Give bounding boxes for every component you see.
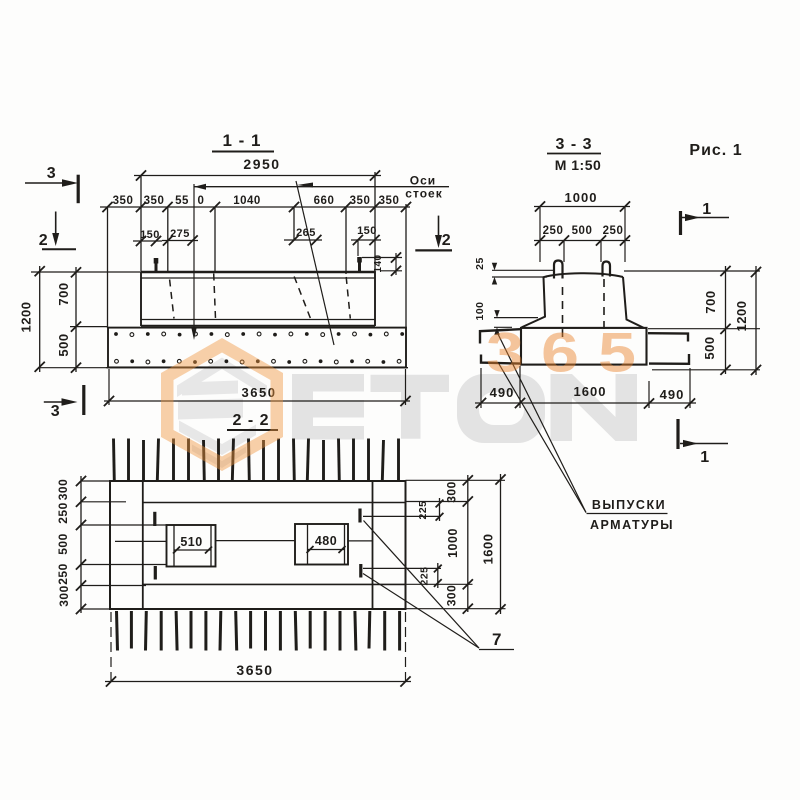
svg-text:350: 350 [113, 195, 134, 207]
right dims extension lines (plan) [406, 479, 506, 481]
post axis right (slanted) [296, 181, 334, 345]
svg-text:АРМАТУРЫ: АРМАТУРЫ [590, 518, 674, 532]
svg-text:3 - 3: 3 - 3 [555, 136, 592, 153]
footing outline (3-3) [521, 328, 647, 365]
svg-text:1: 1 [702, 201, 711, 218]
svg-text:ВЫПУСКИ: ВЫПУСКИ [592, 498, 666, 512]
rebar outlet P-shape right (3-3) [603, 262, 611, 277]
svg-text:2 - 2: 2 - 2 [232, 412, 269, 429]
svg-text:Рис. 1: Рис. 1 [689, 142, 742, 159]
footing outline section 1-1 [108, 328, 406, 368]
svg-text:1600: 1600 [481, 534, 496, 565]
svg-text:Оси: Оси [410, 174, 436, 188]
svg-text:1: 1 [700, 449, 709, 466]
left dim column 300/250/500/250/300 [80, 476, 82, 613]
right dims 3-3: extension lines [624, 270, 760, 272]
svg-text:265: 265 [296, 227, 316, 239]
top rebar spikes (plan) [112, 439, 116, 482]
svg-text:250: 250 [56, 502, 70, 524]
hidden post edges (dashed) left post [170, 280, 174, 319]
svg-text:2: 2 [442, 232, 451, 249]
dim 1200 line [39, 266, 41, 372]
rebar dowel right (section 1-1) [358, 257, 361, 272]
svg-text:300: 300 [56, 479, 70, 501]
post pocket 510 (plan) [167, 525, 216, 567]
section marker 2 left [55, 212, 57, 239]
svg-text:300: 300 [57, 585, 71, 607]
svg-text:300: 300 [445, 585, 459, 607]
svg-text:2950: 2950 [243, 156, 280, 172]
svg-text:100: 100 [474, 301, 486, 320]
post pocket 480 (plan) [295, 524, 348, 565]
pedestal outline (3-3) [543, 273, 623, 277]
watermark letters ETON [292, 374, 637, 443]
svg-text:3: 3 [486, 321, 524, 384]
hidden post edges (dashed) right post [294, 277, 310, 319]
dim 225 upper (plan) [439, 498, 441, 521]
plan outer rectangle [110, 481, 406, 609]
svg-text:250: 250 [543, 225, 564, 237]
svg-text:350: 350 [144, 195, 165, 207]
dim 225 lower (plan) [437, 563, 439, 588]
dim 140 (vertical, right of beam) [362, 257, 402, 259]
section marker 1 top right [679, 211, 682, 235]
svg-text:480: 480 [315, 534, 337, 548]
footing dots row 2 [115, 359, 119, 363]
extension verticals (3-3 top dims) [539, 207, 541, 262]
rebar dowel left (section 1-1) [155, 258, 158, 272]
svg-text:3650: 3650 [236, 662, 273, 678]
svg-text:6: 6 [541, 321, 579, 384]
dim 3650 (plan bottom) [110, 612, 112, 685]
svg-text:7: 7 [492, 630, 502, 649]
section marker 1 bottom right [676, 419, 679, 449]
dim 700/500 (3-3) [725, 266, 727, 374]
plan inner verticals (beam sides) [142, 481, 144, 609]
side wing element left (3-3) [480, 329, 520, 343]
svg-text:250: 250 [56, 563, 70, 585]
svg-text:350: 350 [379, 195, 400, 207]
plan beam edges [143, 502, 406, 504]
side wing element right (3-3) [648, 333, 688, 341]
osi stoek dimension line [194, 186, 449, 188]
extension verticals from dim rows [107, 207, 109, 328]
svg-text:500: 500 [56, 333, 71, 356]
dim 100 (3-3) [494, 317, 538, 319]
svg-text:510: 510 [180, 535, 202, 549]
svg-text:стоек: стоек [405, 187, 442, 201]
svg-text:3: 3 [51, 403, 60, 420]
svg-text:700: 700 [703, 290, 718, 313]
rebar outlet marks (plan) [153, 512, 156, 526]
svg-text:1000: 1000 [565, 190, 598, 205]
svg-text:490: 490 [490, 385, 515, 400]
dim 1600 (plan) [500, 474, 502, 614]
svg-text:3: 3 [47, 165, 56, 182]
dim 300/1000/300 (plan) [467, 475, 469, 612]
svg-text:490: 490 [660, 387, 685, 402]
svg-text:1200: 1200 [734, 301, 749, 332]
svg-text:660: 660 [314, 195, 335, 207]
svg-text:1 - 1: 1 - 1 [222, 131, 261, 150]
svg-text:55: 55 [175, 195, 189, 207]
rebar outlet P-shape left (3-3) [554, 261, 563, 279]
bottom rebar spikes (plan) [117, 611, 118, 651]
bottom dims 3-3: extension verticals [480, 368, 482, 408]
svg-text:1000: 1000 [446, 528, 460, 558]
footing dots row 1 [114, 332, 118, 336]
leader lines to mark 7 [364, 521, 480, 649]
dim 490/1600/490 (3-3) [475, 402, 696, 404]
svg-text:500: 500 [56, 533, 70, 555]
dim 25 (3-3) [492, 269, 554, 271]
svg-text:300: 300 [445, 481, 459, 503]
svg-text:М 1:50: М 1:50 [555, 157, 602, 173]
svg-text:500: 500 [572, 225, 593, 237]
svg-text:350: 350 [350, 195, 371, 207]
svg-text:150: 150 [357, 225, 377, 237]
dim 1200 (3-3) [755, 266, 757, 375]
svg-text:275: 275 [170, 228, 190, 240]
svg-text:1040: 1040 [233, 195, 261, 207]
leader lines vypuski armatury [496, 330, 586, 513]
svg-text:1200: 1200 [19, 302, 34, 333]
post axis left (vertical) [193, 184, 195, 332]
watermark orange hexagon ring [161, 338, 283, 471]
svg-text:1600: 1600 [574, 384, 607, 399]
svg-text:25: 25 [474, 257, 486, 270]
svg-text:5: 5 [598, 321, 636, 384]
dim row 350/350/550/1040/660/350/350 line [100, 206, 410, 208]
watermark gray hexagon chevrons [177, 358, 267, 469]
section marker 2 right [438, 216, 440, 240]
svg-text:2: 2 [39, 232, 48, 249]
dim 2950 line [134, 175, 381, 177]
dim 700/500 line [75, 267, 77, 372]
svg-text:140: 140 [373, 254, 384, 272]
plan center axis line [115, 540, 167, 542]
svg-text:700: 700 [56, 282, 71, 305]
svg-text:225: 225 [417, 500, 429, 519]
left dim column extension lines (plan) [81, 480, 110, 482]
left dims of section 1-1: extension lines [31, 271, 140, 273]
beam outline section 1-1 [141, 271, 375, 273]
svg-text:0: 0 [198, 195, 205, 207]
svg-text:500: 500 [702, 336, 717, 359]
